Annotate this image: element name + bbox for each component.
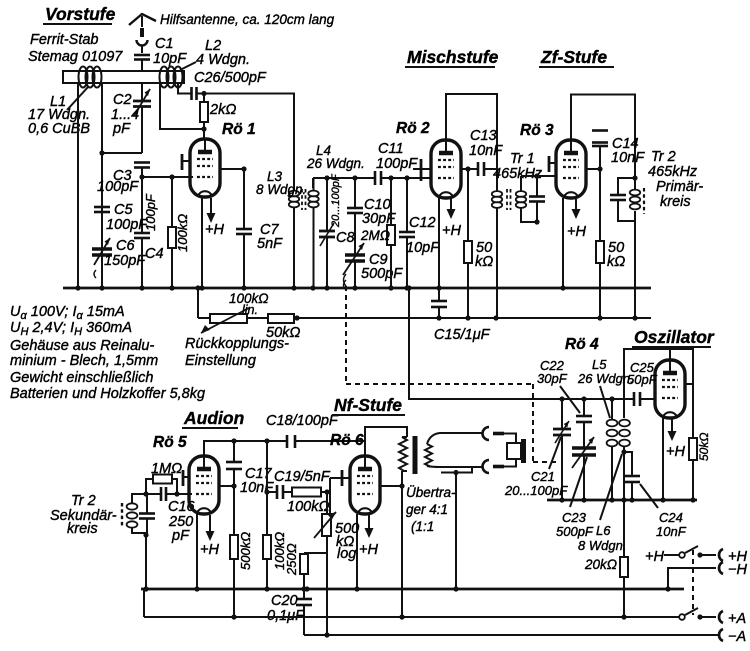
- wire Rö4 right lead: [685, 383, 693, 385]
- node 100k top audion: [264, 438, 269, 443]
- svg-text:Tr 2: Tr 2: [71, 493, 96, 509]
- trimmer C8: [319, 173, 355, 288]
- svg-text:100pF: 100pF: [106, 217, 148, 233]
- rail 1: [141, 588, 684, 591]
- resistor 2M: [360, 178, 395, 288]
- wire Rö6 anode top: [365, 427, 407, 456]
- svg-text:Gehäuse aus Reinalu-: Gehäuse aus Reinalu-: [10, 338, 154, 354]
- svg-text:log: log: [337, 546, 356, 562]
- node C10 top: [352, 175, 357, 180]
- capacitor C16: [146, 487, 196, 544]
- node C14/50k: [597, 166, 602, 171]
- svg-text:1MΩ: 1MΩ: [151, 461, 182, 477]
- rail 3 node: [324, 632, 329, 637]
- svg-text:8 Wdgn.: 8 Wdgn.: [256, 182, 306, 197]
- svg-text:0,6 CuBB: 0,6 CuBB: [28, 121, 90, 137]
- svg-text:10nF: 10nF: [240, 480, 274, 496]
- node C26/2k: [201, 91, 206, 96]
- text block specs: [10, 304, 205, 402]
- svg-text:Tr 1: Tr 1: [510, 151, 535, 167]
- capacitor C5: [94, 202, 148, 233]
- wire C4 branch: [141, 177, 143, 233]
- node 50k right: [294, 315, 299, 320]
- wire L1 left lead to bus: [77, 83, 79, 288]
- svg-text:100kΩ: 100kΩ: [175, 214, 190, 252]
- node C7 top: [241, 166, 246, 171]
- capacitor C11: [375, 141, 431, 185]
- wire Rö2 right lead: [461, 168, 478, 170]
- svg-text:+H: +H: [442, 223, 461, 239]
- wire Rö3 right lead: [586, 168, 600, 170]
- node C8 top: [324, 175, 329, 180]
- svg-text:C13: C13: [470, 128, 497, 144]
- resistor 2k: [200, 94, 236, 140]
- svg-text:250Ω: 250Ω: [284, 543, 299, 576]
- svg-text:minium - Blech, 1,5mm: minium - Blech, 1,5mm: [10, 353, 158, 369]
- wire Rö4 anode top: [624, 349, 670, 418]
- bus node dots: [75, 285, 441, 290]
- capacitor C17: [226, 441, 274, 496]
- +H arrow Rö2: [442, 199, 461, 239]
- svg-text:Rö 5: Rö 5: [153, 434, 187, 451]
- svg-text:C12: C12: [409, 215, 436, 231]
- grid bar Rö5: [183, 470, 190, 486]
- headphone jack bottom: [483, 459, 516, 473]
- svg-text:20kΩ: 20kΩ: [584, 557, 617, 572]
- resistor 100k nf: [287, 488, 329, 516]
- terminal +A: [719, 611, 746, 627]
- coil L5: [577, 357, 634, 500]
- capacitor C22: [537, 358, 592, 448]
- +H arrow Rö1: [205, 198, 224, 238]
- svg-text:kreis: kreis: [660, 194, 691, 210]
- node C17 bottom: [231, 483, 236, 488]
- svg-text:Batterien und Holzkoffer 5,8kg: Batterien und Holzkoffer 5,8kg: [10, 386, 205, 402]
- grid bar Rö1: [182, 154, 191, 170]
- svg-text:+H: +H: [567, 224, 586, 240]
- wire secondary return: [441, 467, 472, 589]
- node C16 right: [174, 491, 179, 496]
- svg-text:+H: +H: [359, 542, 378, 558]
- node bias 50k Rö2: [465, 315, 470, 320]
- coil L2 on rod: [160, 38, 251, 88]
- svg-text:Audion: Audion: [183, 408, 244, 428]
- svg-text:Übertra-: Übertra-: [406, 485, 456, 500]
- wire grid line to tube Rö1: [142, 176, 193, 178]
- svg-text:+A: +A: [728, 611, 746, 627]
- variable C23: [556, 437, 596, 539]
- node 2M top: [388, 175, 393, 180]
- terminal +H: [719, 549, 747, 565]
- wire Rö2 anode top: [446, 94, 497, 186]
- svg-text:100pF: 100pF: [97, 179, 139, 195]
- resistor 100k audion vertical: [263, 492, 287, 589]
- svg-text:10nF: 10nF: [611, 150, 645, 166]
- resistor 100k (Rö1 grid leak): [168, 177, 190, 288]
- svg-text:kreis: kreis: [67, 521, 98, 537]
- wire osc grid line nodes: [559, 396, 614, 401]
- wire C3 to node: [141, 168, 143, 178]
- svg-text:26 Wdgn.: 26 Wdgn.: [306, 156, 365, 171]
- node Rö3 cathode bus: [560, 285, 565, 290]
- svg-text:Ferrit-Stab: Ferrit-Stab: [30, 32, 99, 48]
- trimmer C2: [111, 83, 151, 153]
- wire bias rail: [198, 317, 651, 319]
- label Rückkopplung: [185, 336, 289, 369]
- potentiometer 500k log: [314, 492, 359, 635]
- coil L6: [578, 420, 630, 557]
- +H arrow Rö5: [200, 515, 219, 558]
- wire transformer primary bottom: [401, 471, 403, 619]
- svg-text:C15/1μF: C15/1μF: [434, 327, 491, 343]
- headphone jack top: [483, 427, 516, 443]
- oscillator bus: [547, 499, 697, 502]
- svg-text:ger 4:1: ger 4:1: [406, 502, 448, 517]
- svg-text:kΩ: kΩ: [607, 254, 625, 270]
- wire Rö3 cathode to bus: [562, 198, 564, 288]
- variable C21: [504, 399, 571, 500]
- svg-text:8 Wdgn.: 8 Wdgn.: [578, 538, 626, 553]
- wire C26 node to L3 line: [197, 94, 295, 187]
- coil L4: [306, 143, 365, 288]
- grid bar Rö6: [330, 470, 351, 486]
- wire L2 right lead: [178, 83, 191, 94]
- svg-text:C1: C1: [155, 36, 174, 52]
- capacitor C7: [236, 169, 283, 288]
- svg-text:C26/500pF: C26/500pF: [194, 70, 267, 86]
- svg-text:Rö 6: Rö 6: [330, 432, 364, 449]
- svg-text:Einstellung: Einstellung: [185, 353, 256, 369]
- svg-text:Oszillator: Oszillator: [634, 327, 715, 347]
- capacitor C10: [347, 178, 396, 255]
- svg-text:100pF: 100pF: [376, 156, 418, 172]
- variable C9: [343, 243, 403, 290]
- svg-text:C11: C11: [378, 141, 404, 157]
- svg-text:C23: C23: [562, 510, 587, 525]
- wire L2 left lead: [160, 83, 204, 129]
- wire mixer grid line: [313, 177, 374, 179]
- svg-text:Primär-: Primär-: [656, 179, 703, 195]
- node Rö3 50k bottom: [597, 315, 602, 320]
- grid bar Rö2: [413, 159, 432, 181]
- capacitor C12: [399, 178, 440, 288]
- wire bus to pot: [197, 288, 199, 318]
- svg-text:C6: C6: [116, 238, 135, 254]
- tube Rö1: [190, 139, 220, 197]
- title Mischstufe: [405, 47, 499, 67]
- svg-text:+H: +H: [200, 542, 219, 558]
- svg-text:C19/5nF: C19/5nF: [274, 469, 331, 485]
- wire Rö5 anode top: [204, 441, 366, 456]
- svg-text:C18/100pF: C18/100pF: [266, 413, 339, 429]
- wire Rö5 cathode: [196, 514, 198, 589]
- capacitor C1: [134, 36, 187, 67]
- svg-text:30pF: 30pF: [537, 371, 568, 386]
- svg-text:Rö 4: Rö 4: [565, 336, 599, 353]
- svg-text:Nf-Stufe: Nf-Stufe: [334, 395, 402, 415]
- capacitor C13: [469, 128, 503, 176]
- squiggle gang to C9: [344, 274, 347, 286]
- svg-text:500kΩ: 500kΩ: [238, 532, 253, 570]
- node 100k top: [169, 174, 174, 179]
- tube Rö4: [655, 360, 685, 418]
- grid bar Rö3: [549, 156, 557, 172]
- tube Rö3: [556, 140, 586, 198]
- transformer Tr2 secondary: [50, 493, 155, 589]
- svg-text:pF: pF: [171, 528, 190, 544]
- svg-text:C8: C8: [336, 230, 355, 246]
- svg-text:pF: pF: [112, 121, 131, 137]
- node bias Tr1: [493, 315, 498, 320]
- svg-text:Hilfsantenne, ca. 120cm lang: Hilfsantenne, ca. 120cm lang: [160, 12, 335, 27]
- capacitor C3: [97, 163, 150, 196]
- svg-text:500pF: 500pF: [361, 266, 403, 282]
- svg-text:50kΩ: 50kΩ: [697, 433, 711, 461]
- rail 1 nodes: [143, 586, 670, 591]
- wire Rö1 right lead: [220, 168, 244, 170]
- svg-text:L6: L6: [596, 523, 611, 538]
- svg-text:L5: L5: [592, 357, 607, 372]
- resistor 20k: [584, 557, 628, 617]
- transformer Tr1: [492, 151, 557, 318]
- terminal -A: [719, 629, 746, 645]
- svg-text:Tr 2: Tr 2: [651, 149, 676, 165]
- svg-text:+H: +H: [205, 222, 224, 238]
- switch +A: [679, 608, 716, 620]
- node C17 top: [231, 438, 236, 443]
- svg-text:50kΩ: 50kΩ: [266, 325, 300, 341]
- capacitor C4: [134, 193, 164, 262]
- svg-text:UH 2,4V; IH 360mA: UH 2,4V; IH 360mA: [10, 320, 132, 338]
- svg-text:Rö 3: Rö 3: [520, 122, 554, 139]
- tube Rö5: [189, 456, 219, 514]
- rail1 to rail2 link: [143, 589, 145, 617]
- tube Rö6: [350, 456, 380, 514]
- wire C25 gap: [625, 398, 634, 400]
- tube Rö2: [431, 140, 461, 198]
- title Zf-Stufe: [539, 47, 614, 67]
- svg-text:+H: +H: [666, 444, 685, 460]
- wire C19 line: [266, 441, 268, 492]
- svg-text:2kΩ: 2kΩ: [209, 102, 236, 118]
- capacitor C25: [627, 360, 658, 406]
- main ground bus: [63, 287, 651, 290]
- resistor 1M: [146, 461, 182, 494]
- title Audion: [182, 408, 244, 428]
- svg-text:Zf-Stufe: Zf-Stufe: [540, 47, 607, 67]
- svg-text:Stemag 01097: Stemag 01097: [28, 49, 123, 65]
- resistor 50k Rö3: [596, 169, 625, 318]
- wire -H: [668, 568, 716, 589]
- resistor 500k audion: [230, 486, 253, 617]
- svg-text:C4: C4: [145, 246, 164, 262]
- wire antenna to rod: [141, 60, 143, 72]
- rail 3: [304, 634, 718, 636]
- capacitor C24: [624, 452, 687, 539]
- resistor 50k bias: [266, 314, 300, 341]
- svg-text:20...100pF: 20...100pF: [504, 483, 568, 498]
- svg-text:20...100pF: 20...100pF: [330, 173, 342, 228]
- node grid Rö5: [143, 491, 148, 496]
- terminal -H: [719, 562, 747, 578]
- wire Rö6 cathode: [356, 514, 358, 589]
- node transformer bottom: [399, 483, 404, 488]
- resistor 50k osc: [689, 433, 711, 500]
- +H arrow Rö3: [567, 199, 586, 240]
- svg-text:−H: −H: [728, 562, 747, 578]
- node 2k bottom: [201, 126, 206, 131]
- title Oszillator: [632, 327, 715, 347]
- wire bus to oscillator line: [409, 288, 625, 399]
- capacitor C14: [592, 131, 645, 170]
- wire Rö4 anode to 50k: [670, 349, 693, 438]
- svg-text:C2: C2: [113, 92, 132, 108]
- svg-text:lin.: lin.: [242, 303, 258, 317]
- potentiometer 100k lin: [201, 291, 269, 333]
- node L1/C3 junction: [99, 150, 104, 155]
- wire L1 right lead down: [101, 83, 103, 288]
- capacitor C20: [267, 589, 312, 635]
- wire Rö2 cathode to bus: [438, 198, 440, 288]
- resistor 250 ohm: [284, 543, 327, 589]
- capacitor C19: [267, 469, 331, 499]
- wire node to C3 branch: [102, 152, 142, 154]
- rail 2: [144, 616, 680, 618]
- switch gang dashed: [692, 550, 694, 615]
- ferrite rod L1: [28, 67, 184, 138]
- svg-text:10pF: 10pF: [406, 240, 440, 256]
- node pot top: [324, 489, 329, 494]
- transformer Übertrager: [399, 430, 483, 534]
- earphone capsule: [507, 439, 524, 463]
- capacitor C18: [266, 413, 339, 448]
- title Vorstufe: [28, 4, 123, 65]
- svg-text:465kHz: 465kHz: [648, 164, 698, 180]
- svg-text:C24: C24: [659, 510, 683, 525]
- svg-text:Rö 1: Rö 1: [222, 121, 256, 138]
- svg-text:26 Wdgn.: 26 Wdgn.: [577, 371, 634, 386]
- svg-text:C21: C21: [531, 469, 555, 484]
- node C19 left: [264, 489, 269, 494]
- svg-text:+H: +H: [645, 549, 664, 565]
- wire Rö5 right lead: [219, 485, 234, 487]
- node C12 top: [404, 175, 409, 180]
- svg-text:5nF: 5nF: [257, 236, 283, 252]
- node 50k Rö2: [465, 166, 470, 171]
- wire Rö6 right lead: [380, 485, 402, 487]
- svg-text:Rö 2: Rö 2: [396, 120, 430, 137]
- svg-text:C20: C20: [271, 593, 298, 609]
- svg-text:Vorstufe: Vorstufe: [45, 4, 116, 24]
- node C3/grid wire: [139, 174, 144, 179]
- core L3/L4: [301, 189, 303, 210]
- dashed gang line mixer: [346, 286, 556, 462]
- capacitor C26: [192, 70, 267, 100]
- resistor 50k Rö2: [464, 169, 493, 318]
- rail 2 nodes: [231, 614, 626, 619]
- svg-text:Mischstufe: Mischstufe: [407, 47, 499, 67]
- svg-text:2MΩ: 2MΩ: [360, 228, 390, 243]
- oscillator bus nodes: [559, 497, 695, 502]
- wire Rö4 cathode and +H arrow: [663, 417, 685, 500]
- svg-text:4 Wdgn.: 4 Wdgn.: [196, 52, 250, 68]
- svg-text:10nF: 10nF: [656, 524, 687, 539]
- antenna: [129, 14, 156, 53]
- svg-text:Gewicht einschließlich: Gewicht einschließlich: [10, 370, 153, 386]
- svg-text:100pF: 100pF: [143, 193, 158, 231]
- transformer Tr2 primary: [610, 149, 703, 321]
- svg-text:100kΩ: 100kΩ: [287, 499, 329, 515]
- +H arrow Rö6: [359, 515, 378, 558]
- trimmer C6: [92, 238, 146, 278]
- node 250 bottom rail1: [301, 586, 306, 591]
- wire C4 to bus: [141, 238, 143, 288]
- wire Rö1 cathode to bus: [201, 197, 203, 288]
- svg-text:500pF: 500pF: [556, 524, 594, 539]
- svg-text:−A: −A: [728, 629, 746, 645]
- svg-text:10nF: 10nF: [469, 143, 503, 159]
- svg-text:10pF: 10pF: [153, 51, 187, 67]
- wire Rö6 grid to pot wiper: [329, 478, 331, 521]
- wire Rö3 anode top: [571, 95, 635, 179]
- svg-text:kΩ: kΩ: [475, 254, 493, 270]
- svg-text:(1:1: (1:1: [411, 519, 434, 534]
- capacitor C15: [431, 288, 491, 343]
- svg-text:150pF: 150pF: [104, 253, 146, 269]
- wire grid to tube Rö5: [177, 493, 192, 495]
- title Nf-Stufe: [332, 395, 405, 415]
- coil L3: [256, 169, 306, 288]
- switch +H: [645, 546, 716, 565]
- svg-text:C5: C5: [114, 202, 133, 218]
